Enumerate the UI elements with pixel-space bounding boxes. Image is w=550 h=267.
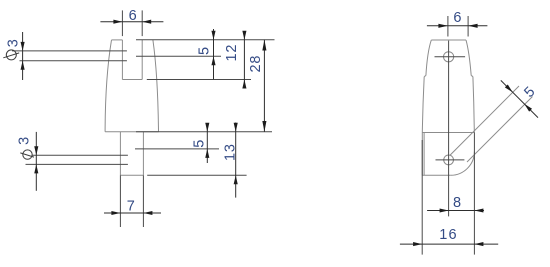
rounded corner (fillet) bottom-right — [451, 152, 475, 176]
dimension 13 dim line — [235, 123, 237, 198]
svg-text:6: 6 — [453, 10, 461, 26]
dimension 28 dim line — [263, 40, 265, 132]
extension line: slot width left (dim 6) — [121, 10, 123, 36]
neck upper-right edge — [466, 40, 471, 76]
diameter symbol (upper hole) — [3, 50, 19, 60]
dimension diameter 3 (upper hole) — [22, 32, 24, 80]
dimension 6 (slot width) — [100, 21, 163, 23]
lower hole circle — [444, 155, 454, 165]
extension line: lower 5mm reference — [135, 148, 219, 150]
dimension 8 (block left to hole center) — [427, 210, 484, 212]
upper hole bottom line — [20, 60, 127, 62]
slot left edge — [121, 40, 123, 80]
dimension 5 (top to upper hole center) — [213, 29, 215, 79]
dimension dia3 lower up arrow — [34, 164, 38, 173]
stem bottom edge — [120, 174, 143, 176]
extension line: part top edge to right — [136, 39, 275, 41]
lower hole top line — [32, 154, 128, 156]
neck upper-left edge — [426, 40, 431, 76]
svg-text:5: 5 — [197, 47, 213, 55]
dimension 28 top arrow — [262, 40, 266, 51]
dimension dia3 lower down arrow — [34, 146, 38, 155]
right step — [471, 75, 473, 78]
dimension 5 lower dim line — [206, 123, 208, 163]
svg-text:12: 12 — [224, 44, 240, 62]
dimension 16 right arrow — [474, 242, 483, 246]
dimension 13 up arrow — [234, 175, 238, 184]
dimension 7 dim line — [104, 212, 161, 214]
dimension 12 down arrow — [242, 31, 246, 40]
neck lower-left edge — [422, 77, 424, 133]
lower hole bottom line — [26, 163, 128, 165]
extension line: fork bottom — [136, 131, 272, 133]
dimension dia3 upper up arrow — [21, 61, 25, 70]
dimension 16 left arrow — [413, 242, 422, 246]
dimension dia3 upper down arrow — [21, 42, 25, 51]
diameter symbol (lower hole) — [20, 150, 34, 159]
arm upper edge — [450, 86, 519, 155]
dimension 16 dim line — [400, 243, 498, 245]
extension line: stem bottom — [147, 174, 246, 176]
extension line: slot width right (dim 6) — [141, 10, 143, 36]
dimension 7 left arrow — [111, 211, 120, 215]
dimension 6 neck right arrow — [468, 24, 478, 28]
svg-text:3: 3 — [6, 39, 22, 47]
vertical center line through both holes / extension for dim 8 — [448, 41, 450, 217]
dimension 8 right arrow — [474, 208, 483, 212]
svg-text:6: 6 — [129, 8, 137, 24]
dimension 28 bottom arrow — [262, 121, 266, 132]
dimension 6 (neck top width) — [427, 25, 488, 27]
dimension 6 neck left arrow — [438, 24, 448, 28]
fork outer right edge (tapered) — [153, 40, 159, 132]
dimension dia3 upper dim line — [22, 32, 24, 80]
extension line: slot bottom — [147, 79, 251, 81]
upper hole top line — [12, 50, 127, 52]
top hole circle — [444, 52, 454, 62]
dimension 8 dim line — [427, 210, 484, 212]
extension line: neck right edge up (dim 6) — [467, 16, 469, 37]
dimension 16 (block width) — [400, 243, 498, 245]
svg-text:16: 16 — [439, 227, 458, 243]
slot right edge — [141, 40, 143, 80]
extension line: stem width left (dim 7) — [119, 175, 121, 227]
dimension 28 (top to fork bottom) — [263, 40, 265, 132]
stem right edge — [142, 132, 144, 176]
dimension 6 neck dim line — [427, 25, 488, 27]
dimension 7 right arrow — [143, 211, 152, 215]
fork bottom edge — [105, 131, 158, 133]
dimension 13 (fork bottom to stem bottom) — [235, 123, 237, 198]
dimension 8 left arrow — [440, 208, 449, 212]
fork outer left edge (tapered) — [105, 40, 111, 132]
dimension 5 lower up arrow — [205, 149, 209, 158]
dimension 5 arm dim line — [501, 80, 538, 117]
lower hole horizontal center line — [436, 159, 465, 161]
block bottom edge — [422, 174, 450, 176]
dimension 6 slot-width dim line — [100, 21, 163, 23]
dimension 5 lower down arrow — [205, 123, 209, 132]
dimension 13 down arrow — [234, 123, 238, 132]
dimension 5 (arm width, diagonal) — [501, 80, 538, 117]
left step — [424, 76, 426, 77]
dimension 5 arm upper arrow — [505, 84, 513, 92]
svg-text:5: 5 — [191, 140, 207, 148]
extension line: hole centerline up (dim 6) — [447, 16, 449, 37]
dimension 12 up arrow — [242, 80, 246, 89]
stem left edge — [119, 132, 121, 176]
dimension 5 arm lower arrow — [524, 104, 532, 112]
dimension 6 slot-width right arrow — [142, 20, 151, 24]
svg-text:7: 7 — [127, 198, 135, 214]
svg-text:28: 28 — [248, 55, 264, 73]
dimension 5 (fork bottom to lower reference) — [206, 123, 208, 163]
block inner left edge — [423, 133, 425, 175]
dimension 12 dim line — [243, 31, 245, 89]
top hole horizontal center line — [435, 56, 466, 58]
dimension 12 (top to slot bottom) — [243, 31, 245, 89]
dimension 6 slot-width left arrow — [113, 20, 122, 24]
neck lower-right edge — [473, 77, 474, 133]
dimension 5 upper down arrow — [211, 31, 215, 40]
left prong top edge — [112, 39, 123, 41]
dimension 5 upper up arrow — [211, 56, 215, 65]
extension line: block left edge down (dim 16) — [421, 140, 423, 255]
dimension diameter 3 (lower hole) — [35, 132, 37, 191]
svg-text:13: 13 — [223, 143, 239, 161]
dimension 7 (stem width) — [104, 212, 161, 214]
extension line: upper hole center — [136, 55, 221, 57]
extension line: stem width right (dim 7) — [142, 175, 144, 227]
dimension 5 upper dim line — [213, 29, 215, 79]
svg-text:3: 3 — [16, 137, 32, 145]
extension line: block right edge down (dims 8 and 16) — [473, 132, 475, 254]
dimension dia3 lower dim line — [35, 132, 37, 191]
block top edge — [422, 132, 474, 134]
neck top edge — [431, 39, 466, 41]
arm lower edge — [467, 97, 533, 163]
svg-text:8: 8 — [453, 195, 461, 211]
slot bottom edge — [122, 79, 142, 81]
block left edge — [421, 133, 423, 176]
